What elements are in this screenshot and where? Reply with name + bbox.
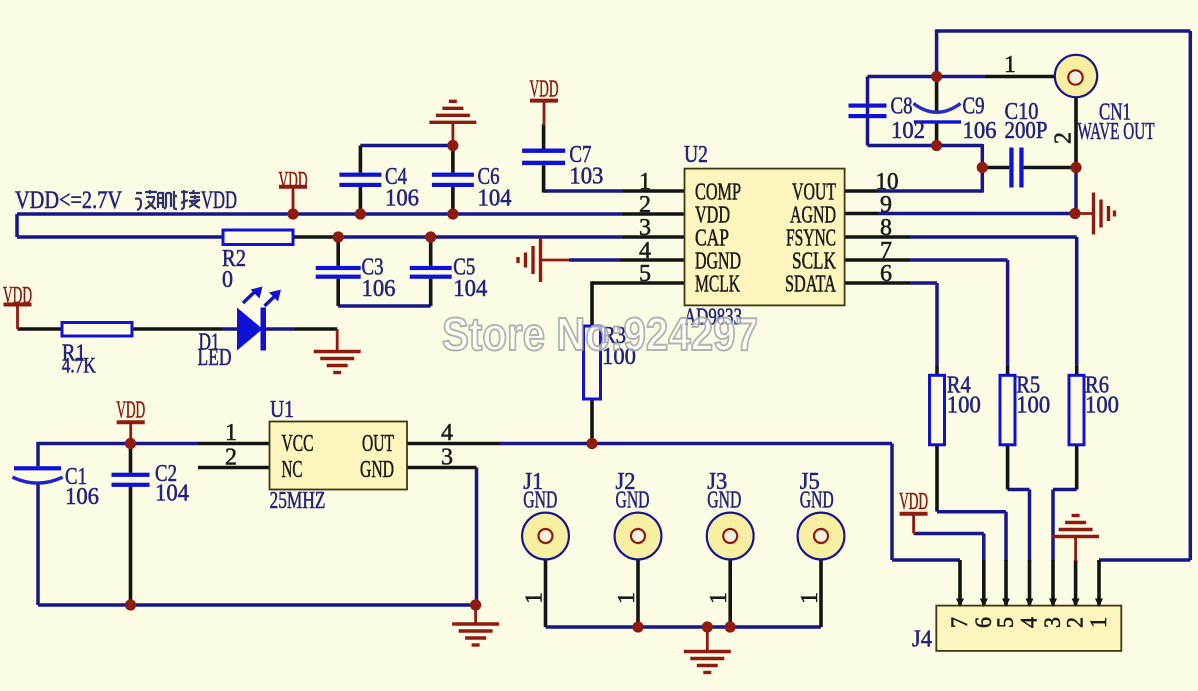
svg-text:100: 100 [1016, 393, 1050, 419]
svg-text:100: 100 [947, 393, 981, 419]
svg-text:2: 2 [225, 445, 237, 471]
svg-text:SDATA: SDATA [785, 272, 836, 298]
svg-text:7: 7 [947, 617, 972, 628]
svg-text:C8: C8 [891, 94, 913, 120]
svg-text:25MHZ: 25MHZ [270, 488, 326, 514]
svg-text:1: 1 [522, 592, 548, 604]
svg-text:106: 106 [65, 484, 99, 510]
svg-text:1: 1 [797, 592, 823, 604]
svg-text:5: 5 [993, 617, 1018, 628]
svg-text:GND: GND [707, 488, 741, 514]
svg-text:103: 103 [569, 164, 603, 190]
svg-text:VDD: VDD [116, 398, 145, 424]
svg-text:C9: C9 [963, 94, 985, 120]
svg-text:102: 102 [891, 118, 925, 144]
svg-text:3: 3 [1040, 617, 1065, 628]
svg-text:OUT: OUT [362, 431, 394, 457]
svg-text:5: 5 [639, 261, 651, 287]
svg-text:1: 1 [706, 592, 732, 604]
svg-text:NC: NC [282, 457, 303, 483]
svg-text:106: 106 [362, 276, 396, 302]
svg-text:U1: U1 [270, 397, 294, 423]
svg-text:VDD: VDD [201, 187, 237, 214]
svg-text:106: 106 [385, 186, 419, 212]
svg-text:GND: GND [360, 457, 394, 483]
svg-text:2: 2 [1051, 132, 1077, 144]
svg-text:104: 104 [453, 276, 487, 302]
svg-text:104: 104 [155, 481, 189, 507]
svg-text:GND: GND [523, 488, 557, 514]
svg-text:1: 1 [1004, 52, 1016, 78]
svg-text:4.7K: 4.7K [62, 353, 96, 378]
svg-text:1: 1 [1086, 617, 1111, 628]
svg-text:4: 4 [1017, 617, 1042, 628]
svg-text:1: 1 [225, 420, 237, 446]
svg-text:VCC: VCC [282, 431, 314, 457]
svg-text:J4: J4 [912, 627, 932, 653]
svg-text:VDD<=2.7V: VDD<=2.7V [15, 187, 122, 214]
svg-text:1: 1 [614, 592, 640, 604]
svg-text:104: 104 [478, 186, 512, 212]
svg-text:2: 2 [1063, 617, 1088, 628]
svg-text:GND: GND [616, 488, 650, 514]
svg-text:LED: LED [198, 345, 232, 371]
svg-text:3: 3 [441, 445, 453, 471]
svg-text:200P: 200P [1005, 118, 1048, 144]
svg-text:4: 4 [441, 420, 453, 446]
svg-text:100: 100 [1085, 393, 1119, 419]
svg-text:MCLK: MCLK [695, 272, 740, 298]
svg-text:WAVE OUT: WAVE OUT [1078, 119, 1155, 145]
svg-text:VDD: VDD [899, 489, 928, 515]
svg-text:GND: GND [800, 488, 834, 514]
svg-text:U2: U2 [684, 142, 708, 168]
svg-text:0: 0 [222, 267, 233, 293]
svg-text:6: 6 [880, 261, 892, 287]
svg-text:106: 106 [963, 118, 997, 144]
svg-text:Store No:924297: Store No:924297 [442, 308, 758, 360]
